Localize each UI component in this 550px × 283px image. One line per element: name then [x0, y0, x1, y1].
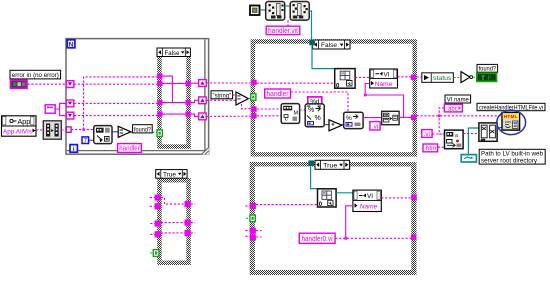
wire abc branch: [439, 108, 444, 134]
case 4 right tunnel top: [411, 195, 417, 201]
wire stub into case 4 row 3: [245, 235, 249, 237]
string constant .vi (case 2): [370, 122, 380, 131]
svg-text:%: %: [315, 115, 321, 122]
wire stub case 3 left 1: [150, 197, 155, 199]
svg-text:F: F: [488, 75, 492, 82]
string constant "string": [211, 91, 233, 100]
case 2 selector label False: [313, 40, 350, 49]
case structure 3 border (small True): [157, 178, 191, 265]
wire build text to concat: [363, 117, 382, 119]
case 2 left tunnel error: [251, 80, 256, 85]
wire stub case 3 left 4: [150, 233, 154, 235]
svg-text:%: %: [346, 115, 352, 122]
wire .htm to build path: [438, 146, 445, 148]
label VI name: [445, 95, 471, 103]
wire string U-B down to handler.vit: [287, 20, 289, 26]
svg-text:handler: handler: [119, 146, 140, 153]
svg-text:T: T: [481, 75, 485, 82]
string pair constant: [45, 105, 55, 113]
case 1 wire B straight: [163, 82, 186, 84]
wire property node to right tunnel: [381, 197, 411, 199]
case 4 left tunnel 3: [250, 234, 256, 240]
svg-text:handler: handler: [267, 91, 290, 98]
increment function: [329, 120, 342, 131]
createHandlerHTMLFile subVI icon: [502, 113, 520, 131]
wire subvi to html icon: [497, 127, 502, 129]
wire path up to subvi: [468, 128, 478, 155]
shift register right 3: [199, 113, 207, 120]
case 3 selector terminal: [153, 250, 159, 257]
case 1 left tunnel C: [157, 100, 162, 105]
string constant handler.vit: [266, 26, 300, 35]
wire loop to big case (lower): [206, 115, 251, 117]
case 1 selector terminal: [157, 130, 162, 136]
case 4 left tunnel: [250, 203, 256, 209]
svg-text:App.AllVIs: App.AllVIs: [3, 129, 33, 136]
wire branch to Name input: [346, 206, 353, 239]
wire stub case 3 left 2: [150, 205, 155, 207]
wire loop to compare (string): [206, 100, 251, 109]
case 2 left tunnel low: [251, 113, 256, 118]
case 4 top tunnel (refnum): [308, 160, 314, 166]
label found? (indicator): [477, 64, 498, 72]
iteration terminal i: [70, 145, 77, 153]
wire stub case 3 right 2: [191, 222, 196, 224]
pad icon: [281, 104, 299, 124]
equal? function: [236, 92, 248, 105]
case 2 right tunnel low: [411, 115, 416, 120]
subVI helper icon: [479, 123, 497, 141]
case 3 right tunnel 1: [185, 201, 191, 207]
wire constant to shift register 2: [55, 103, 66, 109]
svg-text:"string": "string": [213, 92, 232, 99]
wire array to search: [71, 129, 93, 131]
string constant .vi (right): [422, 130, 432, 138]
wire handler0 to tunnel: [335, 237, 411, 239]
shift register left 3: [66, 112, 74, 119]
wire loop to big case (error): [206, 82, 251, 84]
svg-text:status: status: [433, 75, 452, 82]
wire tunnel low to pad icon: [257, 115, 281, 117]
case 3 left tunnel 1: [155, 195, 161, 201]
app reference constant (top): [250, 6, 260, 16]
svg-text:True: True: [163, 172, 177, 179]
wire tunnel mid to pad icon: [257, 108, 281, 110]
svg-text:a: a: [455, 133, 458, 139]
property node App: [2, 116, 37, 136]
wire sr2 across loop: [74, 102, 158, 104]
wire stub case 3 selector: [150, 252, 153, 254]
format label %d: [308, 97, 322, 106]
wire array branch vertical: [84, 77, 158, 130]
svg-text:False: False: [165, 50, 180, 57]
svg-text:handler0.vi: handler0.vi: [302, 236, 333, 243]
svg-text:True: True: [323, 162, 337, 169]
wire tunnel to unbundle: [416, 76, 421, 78]
wire Name branch: [365, 84, 403, 118]
wire stub into case 4 row 1: [245, 205, 249, 207]
open VI reference icon (top): [335, 69, 355, 90]
loop resize corner: [202, 147, 209, 154]
wire App.AllVIs to index icon: [36, 129, 43, 131]
wire compare to case selector (boolean): [131, 131, 157, 133]
case 1 left tunnel D: [157, 112, 162, 117]
case 4 right tunnel low: [411, 234, 417, 240]
case 2 top tunnel (refnum): [309, 40, 315, 46]
svg-text:HTML: HTML: [504, 114, 518, 119]
wire status to not: [454, 76, 461, 78]
svg-text:Name: Name: [375, 81, 393, 88]
property node VI Name (bottom): [353, 190, 381, 211]
wire case 3 row 1: [161, 198, 185, 205]
wire build path to subvi: [463, 133, 479, 135]
case structure 1 border (False, inside loop): [157, 52, 191, 149]
case 1 left tunnel A: [157, 74, 162, 79]
unbundle by name status: [422, 73, 454, 83]
wire stub into case 4 row 2: [245, 230, 249, 232]
compare function triangle: [118, 126, 131, 137]
case 1 right tunnel A: [186, 81, 191, 86]
svg-text:.vi: .vi: [424, 131, 430, 138]
wire teal U-B down to case tunnel: [309, 11, 311, 40]
wire index icon to loop tunnel: [61, 129, 66, 131]
svg-text:server root directory: server root directory: [481, 157, 538, 164]
svg-text:M: M: [294, 111, 299, 117]
label found? (in loop): [133, 125, 153, 134]
case 1 right tunnel B: [186, 100, 191, 105]
case 3 selector label True: [156, 170, 187, 179]
wire constant to shift register 3: [60, 103, 67, 115]
svg-text:error in (no error): error in (no error): [12, 72, 59, 79]
label path to LV: [479, 149, 545, 164]
svg-text:VI name: VI name: [447, 96, 469, 103]
svg-text:App: App: [18, 117, 31, 126]
shift register left 2: [66, 100, 74, 107]
string constant handler0.vi: [299, 233, 335, 243]
svg-text:False: False: [321, 42, 337, 49]
wire equal to big case selector: [248, 97, 251, 99]
search 1D array icon: [94, 126, 112, 144]
case 1 selector label False: [157, 48, 190, 57]
case 1 right tunnel C: [186, 112, 191, 117]
case 2 right tunnel top: [411, 75, 416, 80]
wire case 3 row 2: [161, 222, 185, 224]
wire stub case 3 right 1: [191, 203, 196, 205]
case 4 selector label True: [315, 160, 350, 169]
shift register right 2: [199, 97, 207, 104]
wire case 3 row 3: [161, 232, 185, 234]
wire case1 to shift register right 3: [191, 114, 199, 116]
for loop frame: [66, 39, 209, 155]
case structure 4 border (bottom True): [250, 162, 417, 275]
property node VI Name (top): [370, 69, 398, 88]
wire stub case 4 inner 2: [256, 236, 262, 238]
build path icon: [445, 130, 464, 149]
case 3 right tunnel 2: [185, 220, 191, 226]
error cluster constant: [11, 80, 28, 88]
svg-text:found?: found?: [134, 126, 151, 133]
selection circle: [497, 110, 526, 134]
svg-text:.htm: .htm: [424, 145, 436, 152]
not function: [461, 72, 473, 83]
case 4 left tunnel 2: [250, 228, 256, 234]
case 4 selector terminal: [250, 215, 255, 222]
open VI reference icon (bottom): [318, 189, 337, 208]
case 2 selector terminal: [251, 94, 256, 100]
wire search to compare: [112, 131, 118, 133]
shift register right 1: [199, 80, 207, 87]
string label handler (in loop): [118, 144, 142, 153]
wire teal app to U-A: [260, 9, 266, 11]
svg-text:VI: VI: [384, 71, 390, 78]
string indicator abc: [444, 104, 462, 112]
svg-text:handler.vit: handler.vit: [268, 28, 298, 35]
wire vi ref to property node: [355, 76, 369, 78]
wire increment to build text: [341, 124, 344, 126]
string constant .htm: [423, 144, 438, 152]
wire 7 to search: [89, 139, 94, 141]
wire stub case 3 left 3: [150, 223, 154, 225]
format into string icon: [305, 104, 324, 127]
wire stub into case 4 selector: [246, 217, 250, 219]
build text icon: [344, 112, 363, 128]
svg-text:abc: abc: [448, 106, 458, 112]
label createHandlerHTMLFile.vi: [477, 103, 545, 111]
wire case1 to shift register right 1: [191, 82, 199, 84]
case 2 left tunnel mid: [251, 106, 256, 111]
concatenate strings icon: [382, 111, 399, 124]
wire teal inside case 2: [312, 45, 335, 68]
svg-text:i: i: [73, 146, 75, 153]
case 1 wire D straight: [163, 113, 186, 115]
boolean indicator TF: [477, 73, 497, 82]
string constant handler (case 2): [265, 89, 291, 98]
array input tunnel: [66, 127, 71, 132]
wire left tunnel to vi ref: [256, 204, 318, 206]
case 3 left tunnel 2: [155, 203, 161, 209]
wire error across loop: [74, 83, 158, 85]
case structure 2 border (big False): [251, 39, 417, 156]
svg-text:%: %: [308, 107, 314, 114]
wire stub case 3 right 3: [191, 232, 196, 234]
numeric constant 7: [82, 137, 89, 145]
subVI U-B (top icon 2): [290, 2, 309, 21]
loop count terminal N: [67, 40, 75, 49]
path constant: [461, 155, 476, 162]
label error in (no error): [10, 70, 61, 79]
wire handler right: [291, 92, 348, 112]
svg-text:.vi: .vi: [372, 123, 378, 130]
wire .vi to build path: [432, 133, 444, 135]
case 1 wire C through: [163, 102, 186, 104]
svg-text:Name: Name: [360, 204, 378, 211]
case 1 wire A jog: [163, 76, 173, 103]
case 3 left tunnel 3: [155, 220, 161, 226]
wire property node to right tunnel: [398, 76, 412, 78]
wire "string" to equal: [233, 94, 236, 96]
case 1 left tunnel B: [157, 81, 162, 86]
wire teal U-A to U-B: [285, 5, 290, 7]
svg-text:N: N: [69, 41, 74, 48]
index array icon: [43, 121, 61, 139]
wire pad to format: [300, 109, 305, 111]
wire teal into case 4: [311, 166, 318, 189]
wire format to increment: [324, 124, 329, 126]
subVI U-A (top icon 1): [266, 2, 285, 21]
wire vi ref to property node (teal): [336, 192, 353, 194]
wire error to open vi ref: [257, 82, 335, 84]
long wire case2 to createHandler vi: [417, 115, 502, 117]
svg-text:found?: found?: [479, 66, 497, 73]
wire sr3 across loop: [74, 115, 158, 117]
shift register left 1: [66, 81, 74, 88]
case 3 left tunnel 4: [155, 231, 161, 237]
svg-text:VI: VI: [367, 193, 373, 200]
wire error in to loop: [28, 83, 67, 85]
wire case1 to shift register right 2: [191, 100, 199, 102]
wire concat to tunnel: [399, 116, 411, 118]
case 3 right tunnel 3: [185, 230, 191, 236]
wire not to indicator: [473, 76, 477, 78]
junction handler0 branch: [344, 237, 347, 240]
wire stub case 4 inner 1: [256, 230, 262, 232]
